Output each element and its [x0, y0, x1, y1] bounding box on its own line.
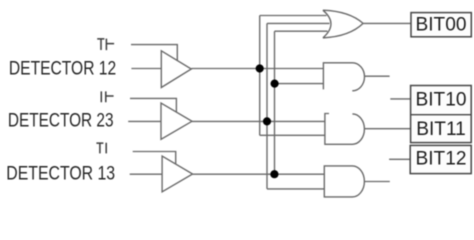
wire bus B vertical (U2 out to OR and AND U7): [266, 23, 268, 189]
wire BIT12 input stub: [389, 158, 410, 160]
wire bus C vertical (U3 out to OR and AND U5): [274, 31, 276, 174]
wire TH to buffer U2 top: [130, 98, 176, 112]
wire DETECTOR 12 input: [131, 68, 161, 70]
wire U2 output to AND U6: [192, 120, 325, 122]
svg-text:BIT00: BIT00: [416, 14, 467, 35]
output box BIT12: [410, 145, 471, 173]
wire bus B to OR input 2: [267, 22, 330, 24]
and-gate U5 (bottom edge faded): [323, 63, 364, 91]
wire TH to buffer U1 top: [131, 45, 177, 61]
or-gate U4: [323, 10, 363, 38]
wire U5 output: [365, 75, 390, 77]
node J4 (bus C / U3 output): [270, 170, 278, 178]
wire DETECTOR 23 input: [128, 120, 161, 122]
wire U1 output to AND U5: [191, 68, 323, 70]
and-gate U7: [324, 166, 364, 197]
svg-text:DETECTOR 23: DETECTOR 23: [8, 109, 114, 131]
svg-text:DETECTOR 12: DETECTOR 12: [9, 57, 116, 79]
wire DETECTOR 13 input: [130, 173, 162, 175]
label TH (input 2 aux): [101, 91, 113, 102]
and-gate U6 (top edge faded): [325, 114, 365, 145]
label TI (input 3 aux): [96, 143, 106, 154]
buffer U1: [161, 51, 191, 88]
wire U4 output to BIT00: [363, 22, 411, 24]
wire TI to buffer U3 top: [133, 152, 176, 164]
node J2 (bus C / U5 lower input): [271, 80, 279, 88]
output box BIT00: [411, 13, 471, 37]
wire bus A to OR input 1: [260, 15, 327, 17]
svg-text:BIT11: BIT11: [416, 119, 466, 140]
wire BIT10 input stub: [390, 98, 410, 100]
wire U3 output to AND U7: [193, 173, 325, 175]
wire U7 output: [364, 181, 389, 183]
buffer U2: [161, 103, 192, 139]
node J3 (bus B / U2 output): [263, 117, 271, 125]
wire bus C to OR input 3: [275, 30, 328, 32]
wire U6 output to BIT11: [364, 128, 410, 130]
wire bus B to AND U7 lower input: [267, 188, 324, 190]
label TH (input 1 aux): [97, 39, 114, 51]
svg-text:DETECTOR 13: DETECTOR 13: [6, 162, 115, 184]
node J1 (bus A / U1 output): [256, 64, 264, 72]
buffer U3: [162, 156, 193, 192]
wire bus A vertical (U1 out to OR and AND U6): [259, 16, 261, 136]
wire bus C to AND U5 lower input: [275, 83, 324, 85]
output box BIT10/BIT11: [411, 86, 472, 143]
divider BIT10/BIT11: [411, 114, 472, 116]
wire bus A to AND U6 lower input: [260, 134, 325, 136]
svg-text:BIT10: BIT10: [416, 90, 467, 111]
svg-text:BIT12: BIT12: [416, 149, 467, 170]
